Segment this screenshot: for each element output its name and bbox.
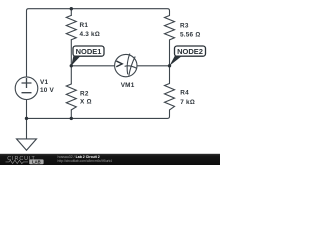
svg-text:VM1: VM1 [121,82,135,89]
svg-text:R2: R2 [80,90,89,97]
wire R1 bottom lead [70,40,72,66]
svg-text:R3: R3 [180,23,189,30]
wire R2 top lead [70,66,72,84]
svg-text:LAB: LAB [32,159,41,164]
svg-text:NODE1: NODE1 [76,47,102,56]
node dot NODE2 junction [168,64,171,67]
wire R3 bottom lead [169,40,171,66]
svg-text:R1: R1 [80,22,89,29]
svg-text:V1: V1 [40,79,48,86]
wire R4 top lead [169,66,171,84]
voltmeter VM1 [115,54,137,77]
wire top rail [27,9,170,77]
svg-text:5.56 Ω: 5.56 Ω [180,31,200,38]
svg-text:X Ω: X Ω [80,98,92,105]
node dot NODE1 junction [70,64,73,67]
wire bottom rail [27,110,170,119]
voltage source V1 [15,77,38,100]
node dot bottom of R2 [70,117,73,120]
wire middle left [71,65,114,67]
svg-text:NODE2: NODE2 [177,47,203,56]
resistor R4 [165,84,175,110]
node dot ground junction [25,117,28,120]
wire middle right [137,65,170,67]
wire left rail lower [26,100,28,119]
svg-text:R4: R4 [180,90,189,97]
node NODE1 label [71,46,104,66]
wire R1 top lead [70,9,72,16]
wire R2 bottom lead [70,110,72,119]
resistor R3 [165,16,175,40]
junction dots [25,7,171,120]
wire ground stub [26,118,28,138]
node dot top of R1 [70,7,73,10]
ground [17,139,37,150]
svg-text:10 V: 10 V [40,87,54,94]
resistor R2 [66,84,76,110]
voltmeter polarity mark [117,61,122,66]
svg-text:http://circuitlab.com/c8mxm9u9: http://circuitlab.com/c8mxm9u9f5urk4 [58,159,113,163]
resistor R1 [66,15,76,39]
node NODE2 label [170,46,206,66]
CircuitLab logo [6,156,44,164]
labels [40,22,200,106]
svg-text:4.3 kΩ: 4.3 kΩ [80,31,100,38]
svg-text:7 kΩ: 7 kΩ [180,99,195,106]
